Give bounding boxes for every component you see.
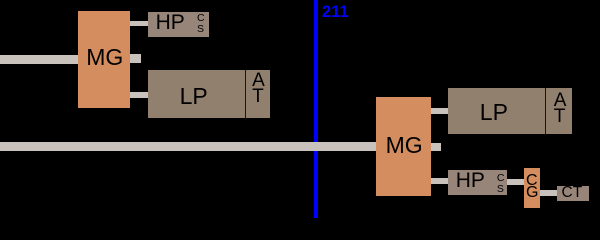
block HP1: [148, 12, 209, 37]
label 211: [322, 4, 349, 21]
block CT: [557, 186, 589, 200]
wire: left trunk into MG1: [0, 55, 78, 64]
block HP2: [448, 170, 507, 194]
wire: stub MG1 to LP1: [130, 92, 149, 98]
block LP1: [148, 70, 270, 118]
wire: MG1 right mid nub: [130, 54, 142, 63]
wire: MG2 right mid nub: [430, 143, 441, 152]
wire: stub MG2 to HP2: [430, 178, 449, 184]
wire: stub CG to CT: [540, 190, 558, 196]
wire: stub HP2 to CG: [507, 179, 525, 185]
block MG2: [376, 97, 431, 196]
block CG: [524, 168, 541, 208]
wire: main trunk into MG2: [0, 142, 377, 151]
timeline marker (blue vertical line): [314, 0, 319, 218]
block MG1: [78, 11, 131, 108]
wire: stub MG1 to HP1: [130, 21, 149, 27]
wire: stub MG2 to LP2: [430, 108, 449, 114]
block LP2: [448, 88, 572, 134]
